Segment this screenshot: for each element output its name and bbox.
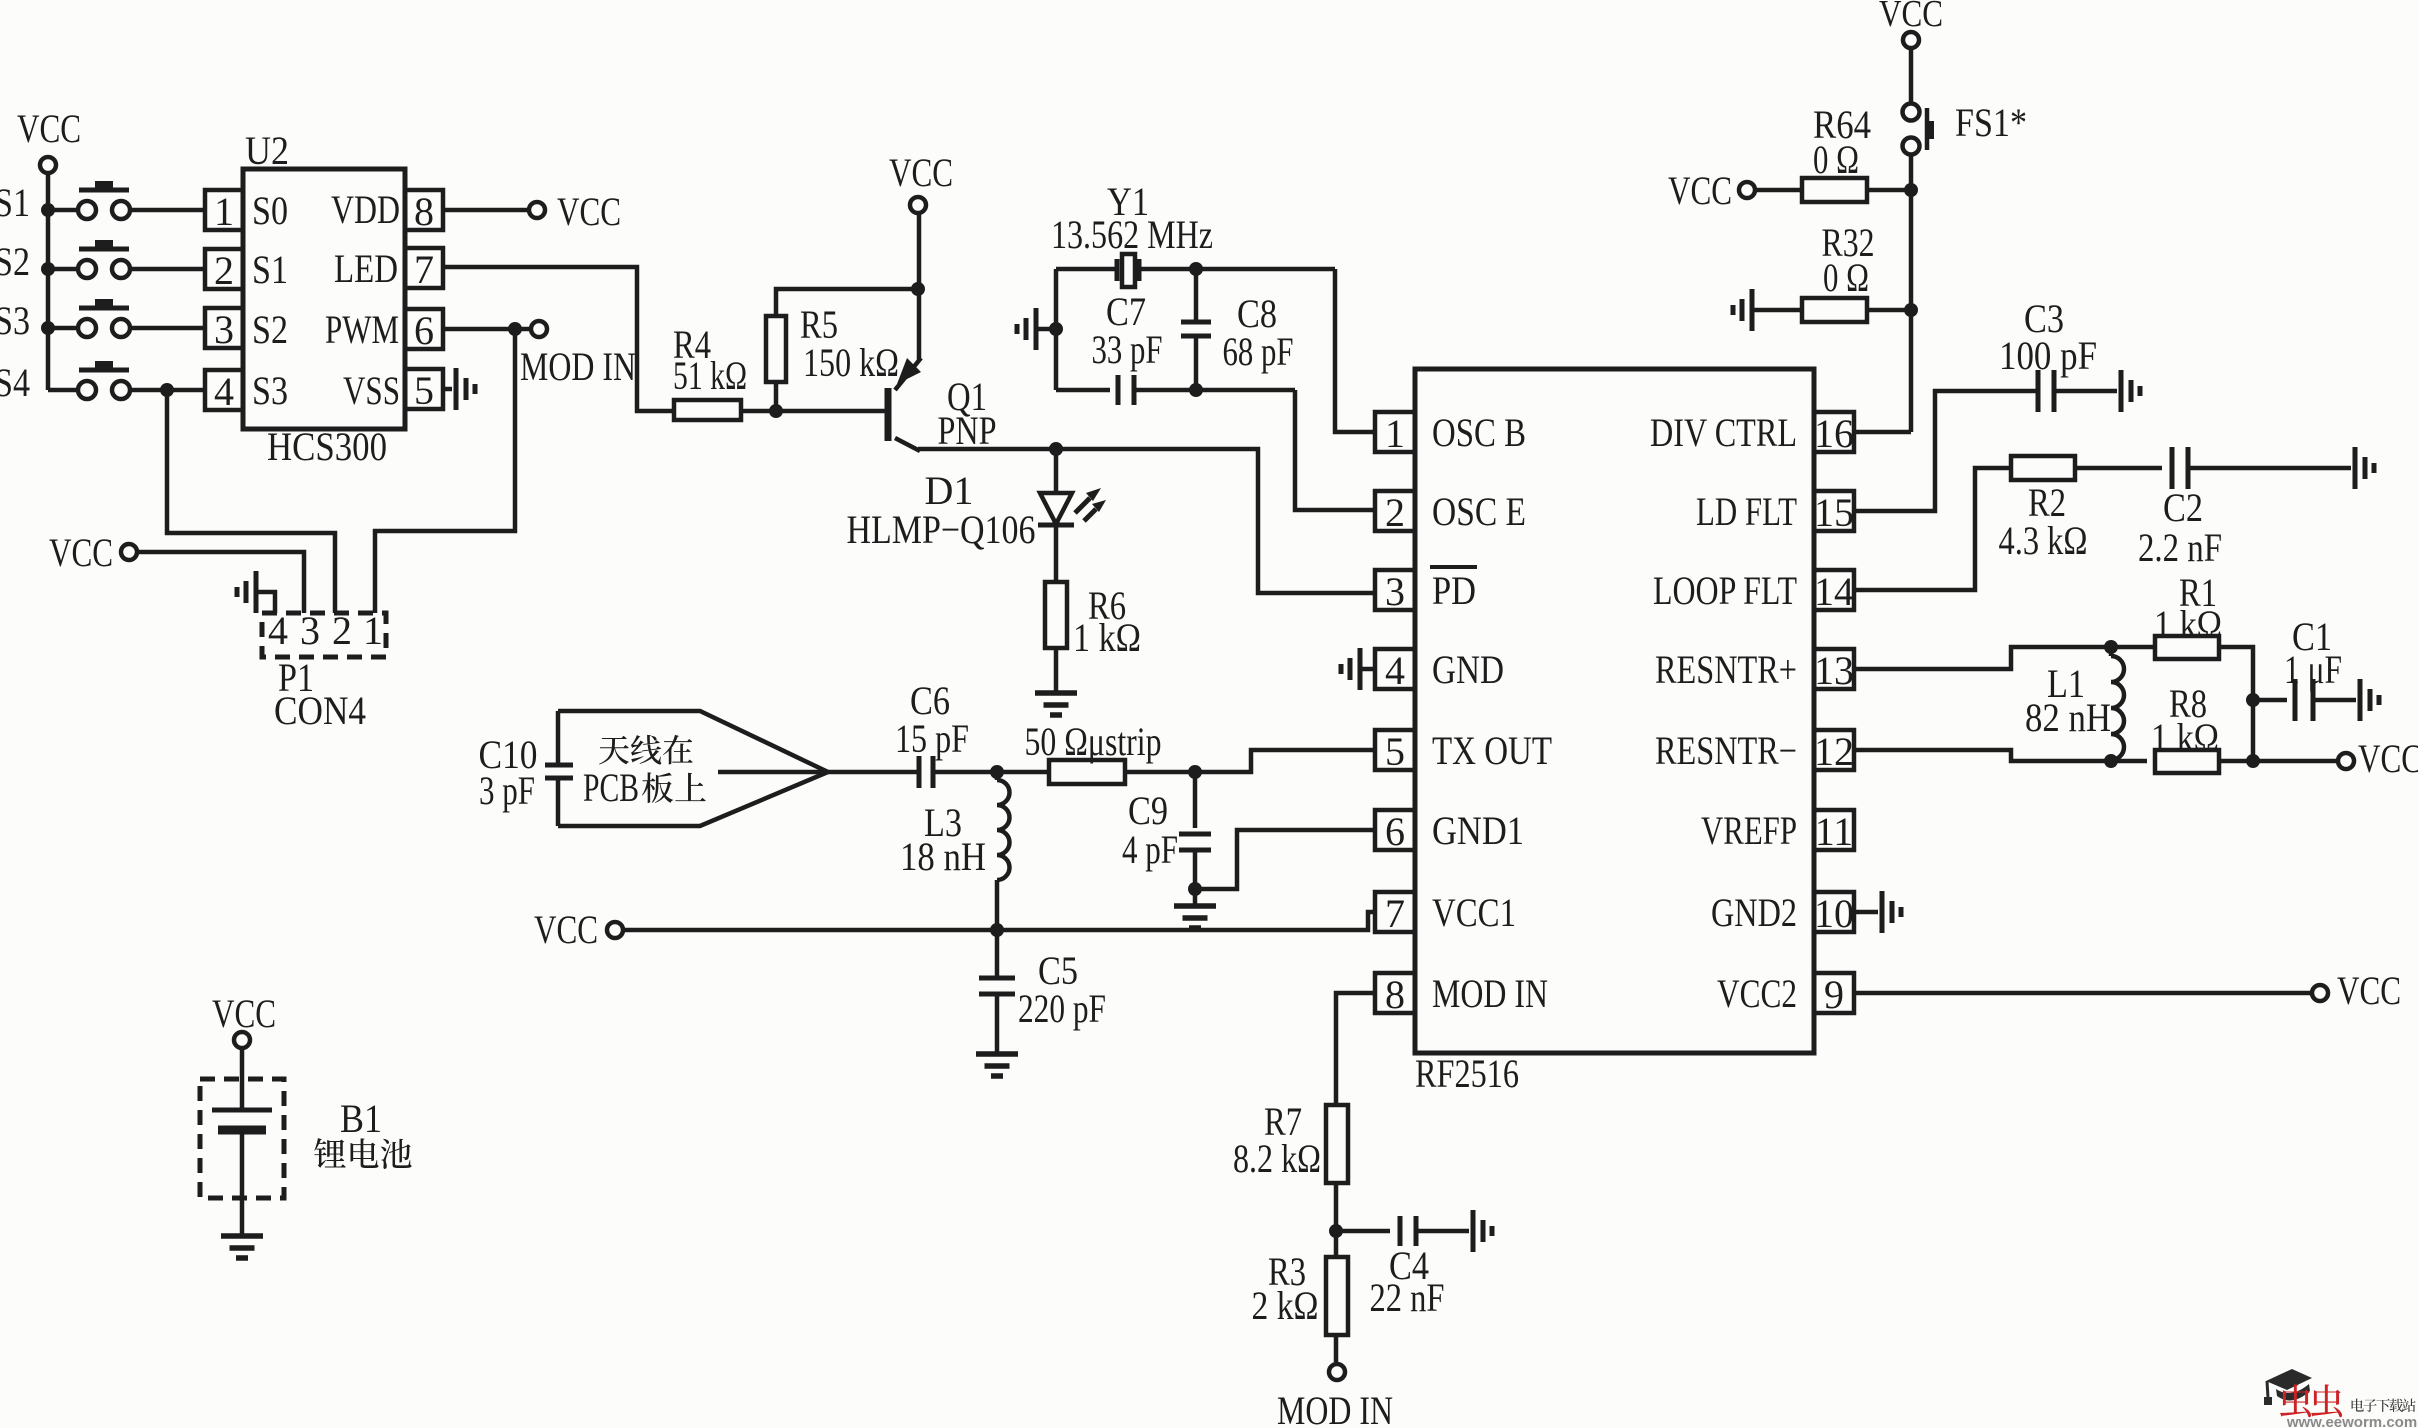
- battery B1 negative plate: [218, 1126, 266, 1135]
- svg-text:22 nF: 22 nF: [1370, 1275, 1445, 1320]
- LED D1 triangle: [1040, 493, 1072, 524]
- svg-text:U2: U2: [245, 128, 289, 173]
- terminal MOD IN bottom: [1329, 1364, 1345, 1380]
- wire antenna to C6: [718, 770, 918, 775]
- svg-text:S3: S3: [252, 368, 288, 413]
- U2 pin 1 box: [205, 190, 243, 230]
- wire pin15 to C3: [1854, 391, 2038, 511]
- svg-text:HCS300: HCS300: [267, 424, 387, 469]
- wire P1 pin4 to ground: [258, 592, 275, 613]
- svg-text:LD FLT: LD FLT: [1696, 489, 1797, 534]
- wire R3 to terminal: [1334, 1335, 1339, 1362]
- U2 pin 5 box: [405, 369, 443, 409]
- ground below B1: [221, 1233, 263, 1239]
- RF2516 pin 3 box: [1375, 570, 1415, 610]
- wire pin10 ground stub: [1854, 910, 1878, 915]
- svg-text:6: 6: [414, 308, 434, 353]
- svg-text:4 pF: 4 pF: [1122, 827, 1178, 872]
- svg-text:33 pF: 33 pF: [1092, 327, 1163, 372]
- wire C9 to pin6 GND1: [1195, 830, 1375, 889]
- capacitor C9: [1179, 832, 1211, 837]
- LED D1 cathode bar: [1038, 523, 1074, 528]
- svg-text:B1: B1: [340, 1096, 382, 1141]
- svg-text:OSC E: OSC E: [1432, 489, 1526, 534]
- terminal VCC right: [2338, 753, 2354, 769]
- ground below C9: [1174, 903, 1216, 909]
- wire pin6 PWM stub: [443, 327, 529, 332]
- wire C9 top: [1193, 772, 1198, 828]
- svg-text:6: 6: [1385, 809, 1405, 854]
- wire R2 to C2: [2075, 466, 2162, 471]
- svg-text:www.eeworm.com: www.eeworm.com: [2286, 1414, 2417, 1428]
- svg-text:DIV CTRL: DIV CTRL: [1650, 410, 1797, 455]
- node C9 top junction: [1188, 765, 1202, 779]
- wire S2 row left: [48, 267, 78, 272]
- resistor R8: [2155, 750, 2219, 773]
- RF2516 pin 16 box: [1814, 412, 1854, 452]
- wire crystal top right: [1139, 267, 1335, 272]
- svg-text:1: 1: [214, 189, 234, 234]
- RF2516 pin 2 box: [1375, 491, 1415, 531]
- svg-text:GND: GND: [1432, 647, 1504, 692]
- capacitor C2: [2170, 447, 2175, 489]
- wire Q1 collector to pin3 PD: [918, 449, 1375, 593]
- svg-text:14: 14: [1814, 569, 1854, 614]
- node crystal bottom junction: [1189, 383, 1203, 397]
- svg-text:2 kΩ: 2 kΩ: [1252, 1283, 1319, 1328]
- wire crystal bottom left: [1056, 388, 1110, 393]
- wire pin5 to ground: [443, 387, 452, 392]
- switch S4: [78, 381, 96, 399]
- resistor R5: [766, 316, 786, 382]
- capacitor C7: [1116, 375, 1121, 405]
- svg-text:OSC B: OSC B: [1432, 410, 1526, 455]
- svg-text:RESNTR−: RESNTR−: [1655, 728, 1797, 773]
- svg-text:S3: S3: [0, 298, 30, 343]
- svg-text:16: 16: [1814, 411, 1854, 456]
- svg-text:VCC: VCC: [534, 907, 598, 952]
- svg-text:220 pF: 220 pF: [1018, 986, 1106, 1031]
- svg-text:PCB: PCB: [583, 765, 639, 810]
- wire ustrip to pin5 TX OUT: [1125, 750, 1375, 772]
- wire FS1 down to pin16 net: [1909, 154, 1914, 432]
- RF2516 pin 6 box: [1375, 810, 1415, 850]
- resistor R32: [1802, 298, 1867, 322]
- svg-text:S1: S1: [0, 180, 30, 225]
- svg-text:VCC: VCC: [2337, 968, 2401, 1013]
- capacitor C1: [2293, 679, 2298, 721]
- ground at R32: [1750, 289, 1755, 331]
- wire S1 row left: [48, 208, 78, 213]
- wire MOD IN net down to P1 pin1: [375, 329, 515, 613]
- svg-text:150 kΩ: 150 kΩ: [803, 340, 899, 385]
- wire S4 row right: [130, 388, 205, 393]
- svg-text:8: 8: [414, 189, 434, 234]
- node crystal top junction: [1189, 262, 1203, 276]
- svg-text:2: 2: [1385, 490, 1405, 535]
- U2 pin 4 box: [205, 370, 243, 410]
- svg-text:11: 11: [1815, 809, 1854, 854]
- wire VCC to Q1 emitter: [917, 214, 922, 360]
- svg-text:VCC: VCC: [212, 991, 276, 1036]
- switch FS1: [1903, 104, 1920, 121]
- wire ground to R32: [1754, 308, 1801, 313]
- svg-text:S2: S2: [0, 239, 30, 284]
- node L1 top junction: [2104, 640, 2118, 654]
- svg-text:MOD IN: MOD IN: [520, 344, 636, 389]
- wire VCC to FS1: [1909, 49, 1914, 104]
- node L1 bottom junction: [2104, 754, 2118, 768]
- wire R64 to junction: [1866, 188, 1911, 193]
- terminal MOD IN: [531, 321, 547, 337]
- svg-text:S0: S0: [252, 188, 288, 233]
- svg-text:1 μF: 1 μF: [2284, 647, 2342, 692]
- ground at U2 pin5: [454, 368, 459, 410]
- node R32 junction: [1904, 303, 1918, 317]
- svg-text:15: 15: [1814, 490, 1854, 535]
- svg-text:MOD IN: MOD IN: [1277, 1388, 1393, 1428]
- svg-text:VCC: VCC: [17, 106, 81, 151]
- resistor R3: [1326, 1257, 1348, 1335]
- capacitor C5: [979, 976, 1015, 981]
- svg-text:LED: LED: [334, 246, 398, 291]
- RF2516 pin 14 box: [1814, 570, 1854, 610]
- svg-text:4.3 kΩ: 4.3 kΩ: [1999, 518, 2088, 563]
- svg-text:TX OUT: TX OUT: [1432, 728, 1552, 773]
- resistor R6: [1045, 582, 1067, 648]
- wire R32 to junction: [1868, 308, 1911, 313]
- svg-text:RESNTR+: RESNTR+: [1655, 647, 1797, 692]
- wire L1 top to R1: [2111, 645, 2155, 650]
- wire to pin1 OSC B: [1335, 269, 1375, 432]
- inductor L1: [2109, 647, 2114, 656]
- capacitor C10: [545, 763, 573, 768]
- svg-text:VCC2: VCC2: [1717, 971, 1797, 1016]
- node S4 branch junction: [160, 383, 174, 397]
- svg-text:3: 3: [214, 307, 234, 352]
- connector P1 dashed outline: [262, 613, 386, 657]
- wire to pin2 OSC E: [1295, 390, 1375, 510]
- wire R6 to ground: [1054, 648, 1059, 693]
- wire R7 to R3: [1334, 1183, 1339, 1257]
- wire C2 to ground: [2189, 466, 2351, 471]
- svg-text:PD: PD: [1432, 568, 1476, 613]
- svg-text:2: 2: [332, 608, 352, 653]
- RF2516 pin 5 box: [1375, 730, 1415, 770]
- svg-text:1 kΩ: 1 kΩ: [2154, 602, 2222, 647]
- svg-text:PNP: PNP: [938, 408, 997, 453]
- node R8/C1 junction: [2246, 754, 2260, 768]
- wire pin8 to VCC: [443, 208, 527, 213]
- svg-text:18 nH: 18 nH: [900, 834, 986, 879]
- svg-text:100 pF: 100 pF: [1999, 333, 2097, 378]
- svg-text:S4: S4: [0, 360, 30, 405]
- wire pin12 to R8 line: [1854, 750, 2147, 761]
- svg-text:8.2 kΩ: 8.2 kΩ: [1233, 1136, 1321, 1181]
- svg-text:CON4: CON4: [274, 688, 366, 733]
- wire VCC to P1 pin3: [137, 552, 304, 613]
- wire crystal top left: [1056, 267, 1117, 272]
- svg-text:13: 13: [1814, 648, 1854, 693]
- wire VCC1 rail: [623, 912, 1375, 930]
- svg-text:10: 10: [1814, 891, 1854, 936]
- svg-text:PWM: PWM: [325, 307, 399, 352]
- wire S2 row right: [130, 267, 205, 272]
- svg-text:S2: S2: [252, 307, 288, 352]
- antenna outline on PCB: [558, 711, 828, 826]
- wire C1 to ground: [2313, 698, 2356, 703]
- resistor R1: [2155, 636, 2219, 659]
- wire pin4 ground stub: [1362, 667, 1375, 672]
- svg-text:VCC: VCC: [889, 150, 953, 195]
- svg-text:MOD IN: MOD IN: [1432, 971, 1548, 1016]
- node C4 junction: [1329, 1224, 1343, 1238]
- svg-text:VCC: VCC: [1668, 168, 1732, 213]
- svg-text:3 pF: 3 pF: [479, 768, 535, 813]
- RF2516 pin 11 box: [1814, 810, 1854, 850]
- svg-text:0 Ω: 0 Ω: [1823, 255, 1869, 300]
- watermark graduation cap: [2266, 1369, 2312, 1390]
- wire C4 to ground: [1414, 1229, 1469, 1234]
- label lithium battery (li dian chi): [314, 1138, 346, 1168]
- svg-text:FS1*: FS1*: [1955, 100, 2027, 145]
- node R5/VCC junction: [911, 282, 925, 296]
- svg-text:5: 5: [414, 368, 434, 413]
- svg-text:LOOP FLT: LOOP FLT: [1653, 568, 1797, 613]
- wire S4 row left: [48, 388, 78, 393]
- wire S4 branch to P1 pin2: [167, 390, 335, 613]
- inductor L3: [995, 772, 1000, 780]
- wire R4 to Q1 base: [740, 409, 885, 414]
- RF2516 pin 15 box: [1814, 491, 1854, 531]
- U2 pin 7 box: [405, 248, 443, 288]
- svg-text:VCC: VCC: [49, 530, 113, 575]
- svg-text:VSS: VSS: [343, 368, 400, 413]
- node S2 junction: [41, 262, 55, 276]
- transistor Q1 collector: [895, 438, 920, 451]
- ground at crystal: [1034, 308, 1039, 350]
- wire pin16 stub: [1854, 430, 1911, 435]
- wire pin13 to L1 top: [1854, 647, 2111, 669]
- terminal VCC at pin9: [2312, 985, 2328, 1001]
- wire pin9 VCC2 to VCC: [1854, 991, 2311, 996]
- svg-text:VDD: VDD: [331, 187, 400, 232]
- IC RF2516 body: [1415, 369, 1814, 1053]
- resistor R64: [1802, 178, 1867, 202]
- svg-text:8: 8: [1385, 972, 1405, 1017]
- node L3 top junction: [990, 765, 1004, 779]
- RF2516 pin 4 box: [1375, 649, 1415, 689]
- capacitor C4: [1398, 1216, 1403, 1246]
- resistor R7: [1326, 1105, 1348, 1183]
- node C5 junction: [990, 923, 1004, 937]
- transistor Q1 emitter: [895, 358, 921, 390]
- wire battery to ground: [240, 1130, 245, 1236]
- switch S3: [78, 319, 96, 337]
- capacitor C6: [917, 756, 922, 788]
- node C1 junction: [2246, 693, 2260, 707]
- svg-text:0 Ω: 0 Ω: [1813, 137, 1859, 182]
- node R5 bottom junction: [769, 404, 783, 418]
- svg-text:13.562 MHz: 13.562 MHz: [1051, 212, 1213, 257]
- RF2516 pin 7 box: [1375, 892, 1415, 932]
- svg-text:VCC1: VCC1: [1432, 890, 1516, 935]
- svg-text:1 kΩ: 1 kΩ: [1073, 615, 1141, 660]
- crystal Y1: [1115, 259, 1120, 281]
- wire R5 bottom: [774, 382, 779, 411]
- battery B1 positive plate: [212, 1108, 272, 1113]
- wire crystal bottom right: [1135, 388, 1295, 393]
- watermark site name text: [2352, 1399, 2364, 1412]
- ground at pin10 GND2: [1880, 891, 1885, 933]
- svg-text:GND2: GND2: [1711, 890, 1797, 935]
- LED D1 light arrow 2: [1084, 509, 1096, 521]
- svg-text:4: 4: [268, 608, 288, 653]
- wire C5 top: [995, 930, 1000, 978]
- wire C5 to ground: [995, 994, 1000, 1054]
- svg-text:12: 12: [1814, 729, 1854, 774]
- svg-text:2: 2: [214, 248, 234, 293]
- watermark chongchong red text: [2280, 1384, 2311, 1417]
- RF2516 pin 9 box: [1814, 973, 1854, 1013]
- U2 pin 6 box: [405, 309, 443, 349]
- wire D1 anode: [1054, 449, 1059, 492]
- wire R5 top: [776, 289, 916, 316]
- node S1 junction: [41, 203, 55, 217]
- svg-text:4: 4: [214, 369, 234, 414]
- wire S1 row right: [130, 208, 205, 213]
- wire VCC bus vertical: [46, 174, 51, 390]
- node MOD IN junction: [508, 322, 522, 336]
- svg-text:1: 1: [1385, 411, 1405, 456]
- transistor Q1 base bar: [885, 388, 892, 441]
- terminal VCC at U2 pin8: [529, 202, 545, 218]
- RF2516 pin 12 box: [1814, 730, 1854, 770]
- wire pin8 to R7: [1336, 993, 1375, 1105]
- ground at pin4 GND: [1358, 648, 1363, 690]
- svg-text:1 kΩ: 1 kΩ: [2151, 715, 2219, 760]
- svg-text:S1: S1: [252, 247, 288, 292]
- svg-text:GND1: GND1: [1432, 808, 1524, 853]
- label antenna line1 (tian xian zai): [599, 736, 629, 765]
- svg-text:5: 5: [1385, 729, 1405, 774]
- node S3 junction: [41, 321, 55, 335]
- svg-text:VCC: VCC: [2358, 736, 2418, 781]
- microstrip 50 ohm: [1049, 760, 1125, 784]
- node R64 junction: [1904, 183, 1918, 197]
- node C9 bottom junction: [1188, 882, 1202, 896]
- svg-text:C2: C2: [2163, 485, 2203, 530]
- ground at C4: [1471, 1210, 1476, 1252]
- U2 pin 3 box: [205, 308, 243, 348]
- LED D1 light arrow 1: [1075, 498, 1090, 513]
- wire C3 to ground: [2054, 389, 2117, 394]
- ground at C2: [2353, 447, 2358, 489]
- ground below R6: [1035, 690, 1077, 696]
- resistor R2: [2011, 456, 2075, 480]
- svg-text:2.2 nF: 2.2 nF: [2138, 525, 2222, 570]
- svg-text:VREFP: VREFP: [1701, 808, 1797, 853]
- IC U2 body: [243, 169, 405, 429]
- svg-text:3: 3: [1385, 569, 1405, 614]
- wire R1 right down: [2219, 647, 2253, 761]
- svg-text:7: 7: [414, 247, 434, 292]
- RF2516 pin 13 box: [1814, 649, 1854, 689]
- wire C6 to ustrip: [934, 770, 1049, 775]
- wire pin7 LED net: [443, 267, 676, 411]
- switch S2: [78, 260, 96, 278]
- wire D1 to R6: [1054, 527, 1059, 582]
- wire R8 to VCC: [2219, 759, 2337, 764]
- U2 pin 2 box: [205, 249, 243, 289]
- capacitor C8: [1194, 269, 1199, 322]
- svg-text:4: 4: [1385, 648, 1405, 693]
- wire C4 left: [1336, 1229, 1390, 1234]
- svg-text:1: 1: [363, 608, 383, 653]
- RF2516 pin 1 box: [1375, 412, 1415, 452]
- svg-text:9: 9: [1824, 972, 1844, 1017]
- node crystal ground junction: [1049, 322, 1063, 336]
- wire pin14 to R2: [1854, 468, 2011, 590]
- ground at C3: [2119, 370, 2124, 412]
- wire crystal ground stub: [1038, 327, 1056, 332]
- ground below C5: [976, 1051, 1018, 1057]
- svg-text:82 nH: 82 nH: [2025, 695, 2111, 740]
- wire crystal left vertical: [1054, 269, 1059, 390]
- svg-text:15 pF: 15 pF: [895, 716, 969, 761]
- svg-text:68 pF: 68 pF: [1223, 329, 1294, 374]
- ground at P1 pin4: [254, 571, 259, 613]
- svg-text:VCC: VCC: [557, 189, 621, 234]
- node D1 junction: [1049, 442, 1063, 456]
- ground at C1: [2358, 679, 2363, 721]
- RF2516 pin 10 box: [1814, 892, 1854, 932]
- resistor R4: [674, 400, 741, 420]
- wire C9 bottom: [1193, 850, 1198, 889]
- capacitor C3: [2036, 370, 2041, 412]
- RF2516 pin 8 box: [1375, 973, 1415, 1013]
- svg-text:RF2516: RF2516: [1415, 1051, 1519, 1096]
- wire C9 junction to ground: [1193, 889, 1198, 906]
- svg-text:51 kΩ: 51 kΩ: [673, 353, 747, 398]
- wire VCC to R64: [1756, 188, 1801, 193]
- U2 pin 8 box: [405, 190, 443, 230]
- battery B1 dashed outline: [200, 1079, 284, 1198]
- wire VCC to battery: [240, 1049, 245, 1110]
- wire C1 left: [2253, 698, 2287, 703]
- svg-text:50 Ωμstrip: 50 Ωμstrip: [1025, 719, 1162, 764]
- svg-text:7: 7: [1385, 891, 1405, 936]
- svg-text:HLMP−Q106: HLMP−Q106: [847, 507, 1036, 552]
- svg-text:3: 3: [300, 608, 320, 653]
- switch S1: [78, 201, 96, 219]
- wire S3 row right: [130, 326, 205, 331]
- transistor Q1 emitter arrow: [897, 358, 921, 384]
- wire S3 row left: [48, 326, 78, 331]
